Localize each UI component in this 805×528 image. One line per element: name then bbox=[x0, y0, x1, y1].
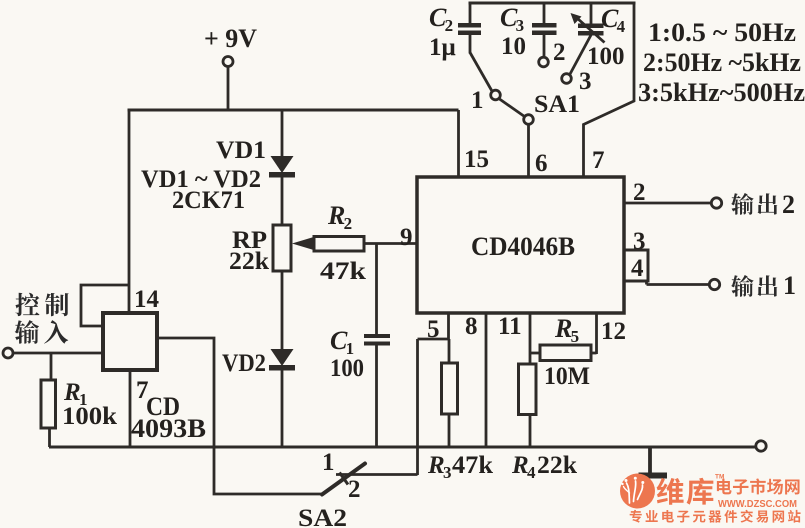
svg-text:5: 5 bbox=[571, 327, 580, 346]
svg-text:3: 3 bbox=[579, 68, 592, 95]
label R3 47k bbox=[427, 452, 493, 482]
wire RP to VD2 bbox=[281, 271, 284, 349]
svg-text:22k: 22k bbox=[229, 248, 269, 275]
ground bus wire bbox=[49, 446, 756, 449]
svg-text:R: R bbox=[327, 201, 345, 230]
svg-text:14: 14 bbox=[134, 286, 160, 313]
svg-text:2: 2 bbox=[344, 214, 353, 233]
ground symbol bbox=[639, 447, 668, 479]
resistor R4 22k bbox=[519, 364, 537, 447]
capacitor C2 1u bbox=[429, 3, 481, 61]
svg-text:8: 8 bbox=[465, 313, 478, 340]
wire to R1 bbox=[50, 353, 53, 381]
svg-text:2: 2 bbox=[782, 190, 795, 219]
resistor R3 47k bbox=[442, 339, 458, 447]
wire VD2 to ground bus bbox=[281, 370, 284, 447]
pin 5 wire to SA2 contact 1 bbox=[418, 313, 450, 475]
frequency range list bbox=[638, 18, 805, 107]
label R4 22k bbox=[511, 452, 577, 482]
svg-text:4: 4 bbox=[631, 255, 644, 282]
svg-text:22k: 22k bbox=[537, 452, 577, 479]
svg-text:47k: 47k bbox=[452, 452, 493, 479]
svg-text:2CK71: 2CK71 bbox=[172, 187, 245, 214]
svg-text:4093B: 4093B bbox=[131, 414, 206, 443]
pin 4 output wire bbox=[647, 279, 720, 289]
watermark 电子市场网 bbox=[717, 478, 800, 494]
svg-text:2: 2 bbox=[348, 476, 361, 503]
svg-text:1:0.5 ~ 50Hz: 1:0.5 ~ 50Hz bbox=[648, 18, 796, 47]
switch SA2 bbox=[298, 449, 418, 528]
watermark slogan bbox=[630, 510, 801, 523]
variable capacitor C4 100 bbox=[571, 3, 626, 70]
svg-text:2:50Hz ~5kHz: 2:50Hz ~5kHz bbox=[643, 48, 801, 77]
svg-text:VD2: VD2 bbox=[222, 350, 266, 377]
svg-text:SA2: SA2 bbox=[298, 505, 347, 528]
svg-text:10M: 10M bbox=[544, 363, 590, 390]
svg-text:WWW.DZSC.COM: WWW.DZSC.COM bbox=[718, 499, 797, 510]
svg-text:CD4046B: CD4046B bbox=[471, 232, 575, 261]
svg-text:4: 4 bbox=[527, 463, 536, 482]
svg-text:4: 4 bbox=[617, 17, 626, 36]
label output 2 bbox=[731, 190, 795, 219]
wire +9V bus bbox=[128, 109, 459, 112]
right terminal bbox=[756, 441, 766, 451]
wire bus to CD4093B pin 14 bbox=[128, 110, 131, 313]
wire 4093 output to SA2 pole bbox=[157, 338, 322, 494]
wire top rail to pin 7 bbox=[584, 3, 635, 178]
diode VD1 bbox=[216, 137, 295, 178]
wire input to CD4093B bbox=[13, 352, 103, 355]
svg-text:9: 9 bbox=[400, 224, 413, 251]
svg-text:VD1: VD1 bbox=[216, 137, 266, 164]
svg-text:R: R bbox=[554, 314, 572, 343]
svg-text:15: 15 bbox=[464, 146, 489, 173]
svg-text:2: 2 bbox=[445, 16, 454, 35]
wire C2 to SA1 contact 1 bbox=[470, 53, 493, 93]
svg-text:1: 1 bbox=[471, 87, 484, 114]
wire C1 to ground bus bbox=[375, 345, 378, 447]
wire junction to C1 bbox=[375, 244, 378, 335]
svg-text:7: 7 bbox=[592, 147, 605, 174]
diode VD2 bbox=[222, 349, 295, 377]
svg-text:10: 10 bbox=[501, 33, 526, 60]
label control input bbox=[15, 293, 69, 344]
svg-text:1: 1 bbox=[783, 271, 796, 300]
potentiometer RP 22k bbox=[229, 225, 315, 275]
resistor R1 100k bbox=[41, 379, 117, 447]
switch SA1 bbox=[471, 39, 592, 124]
pin 2 output wire bbox=[624, 179, 722, 208]
wire SA1 pole to pin 6 bbox=[527, 124, 530, 178]
wire VD1 to RP bbox=[281, 177, 284, 226]
pin 3-4 link box bbox=[624, 228, 648, 282]
wire R2 to pin 9 bbox=[364, 242, 417, 245]
wire feedback loop to pin 14 net bbox=[81, 285, 129, 326]
capacitor C3 10 bbox=[500, 3, 557, 60]
+9V supply terminal bbox=[204, 24, 257, 110]
wire 4093 pin 7 to ground bus bbox=[129, 370, 132, 447]
svg-text:11: 11 bbox=[498, 313, 522, 340]
pin 11 wire bbox=[498, 313, 530, 365]
pin 8 wire bbox=[465, 313, 486, 447]
svg-text:+ 9V: + 9V bbox=[204, 24, 257, 53]
svg-text:6: 6 bbox=[535, 150, 548, 177]
svg-text:1: 1 bbox=[322, 449, 335, 476]
label output 1 bbox=[731, 271, 796, 300]
svg-text:SA1: SA1 bbox=[534, 91, 580, 118]
pin 12 wire bbox=[597, 313, 627, 354]
svg-text:2: 2 bbox=[553, 39, 566, 66]
svg-text:3:5kHz~500Hz: 3:5kHz~500Hz bbox=[638, 78, 805, 107]
input terminal bbox=[3, 348, 13, 358]
svg-text:100: 100 bbox=[330, 355, 364, 382]
watermark brand 维库 bbox=[657, 478, 714, 505]
capacitor C1 100 bbox=[330, 326, 390, 382]
gate U2 CD4093B bbox=[103, 286, 206, 443]
wire bus to VD1 bbox=[281, 110, 284, 157]
svg-text:1μ: 1μ bbox=[429, 34, 456, 61]
resistor R5 10M bbox=[530, 314, 597, 390]
IC U1 CD4046B bbox=[417, 177, 624, 313]
label VD1~VD2 2CK71 bbox=[141, 166, 261, 214]
svg-text:100k: 100k bbox=[62, 403, 117, 430]
wire C4 to SA1 contact 3 bbox=[570, 35, 592, 75]
wire bus to pin 15 bbox=[457, 110, 460, 178]
svg-text:100: 100 bbox=[587, 43, 625, 70]
watermark logo circle bbox=[620, 474, 655, 509]
resistor R2 47k bbox=[314, 201, 366, 285]
svg-text:47k: 47k bbox=[320, 258, 366, 285]
svg-text:3: 3 bbox=[443, 463, 452, 482]
svg-text:12: 12 bbox=[601, 318, 626, 345]
wire top rail (pin7 net across C2 C3 C4) bbox=[469, 2, 636, 5]
